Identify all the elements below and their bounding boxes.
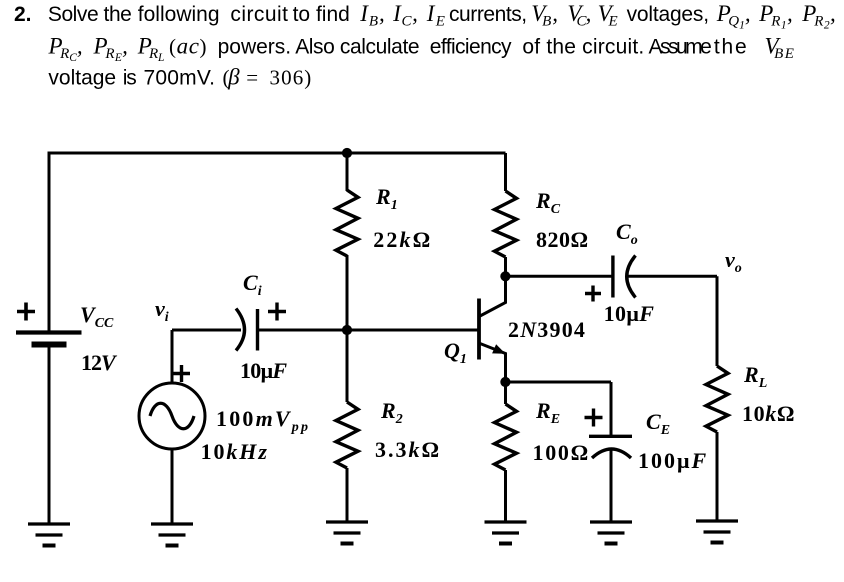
svg-text:PRL: PRL — [137, 34, 165, 65]
label Q1 — [444, 338, 467, 367]
svg-text:PRE,: PRE, — [93, 34, 129, 65]
svg-text:IE: IE — [426, 1, 446, 30]
svg-text:IB,: IB, — [359, 1, 386, 30]
label 100mVpp — [216, 406, 310, 435]
svg-text:(ac): (ac) — [169, 34, 207, 59]
ground RL — [696, 521, 738, 543]
svg-text:efficiency: efficiency — [430, 36, 512, 59]
resistor RC — [495, 191, 517, 257]
label vi — [155, 296, 169, 325]
ground R2 — [326, 522, 368, 544]
wire emitter node horizontal — [506, 381, 612, 384]
svg-text:the: the — [714, 36, 749, 59]
svg-text:voltage: voltage — [48, 67, 116, 90]
svg-text:12V: 12V — [81, 350, 118, 375]
node base-divider junction — [342, 148, 352, 158]
label RL — [743, 362, 767, 391]
svg-text:PR2,: PR2, — [801, 1, 836, 32]
svg-text:10kΩ: 10kΩ — [742, 401, 795, 426]
svg-text:of the circuit.: of the circuit. — [522, 36, 644, 59]
svg-text:RE: RE — [535, 398, 560, 427]
svg-text:10μF: 10μF — [604, 301, 655, 326]
svg-text:Q1: Q1 — [444, 338, 467, 367]
wire Ci to base node — [257, 329, 347, 332]
svg-text:700mV.: 700mV. — [144, 67, 216, 90]
svg-text:306): 306) — [270, 66, 313, 90]
svg-text:820Ω: 820Ω — [536, 227, 589, 252]
node base — [342, 325, 352, 335]
svg-text:RC: RC — [535, 188, 561, 217]
svg-text:currents,: currents, — [449, 3, 527, 26]
capacitor Co — [585, 256, 636, 302]
label 3.3kOhm — [375, 437, 441, 462]
svg-text:PQ1,: PQ1, — [716, 1, 751, 32]
svg-text:22kΩ: 22kΩ — [373, 227, 432, 252]
ground RE — [485, 522, 527, 544]
wire RE top — [504, 381, 507, 404]
svg-text:Also calculate: Also calculate — [295, 36, 419, 59]
svg-text:VC,: VC, — [567, 1, 590, 30]
svg-text:VCC: VCC — [80, 302, 114, 331]
label 12V — [81, 350, 118, 375]
wire vo vertical — [716, 276, 719, 366]
problem text line 2 — [48, 34, 796, 65]
capacitor Ci — [236, 303, 286, 351]
label 22kOhm — [373, 227, 432, 252]
capacitor CE — [585, 409, 633, 459]
label 10uF Ci — [240, 358, 287, 383]
ground battery — [28, 524, 70, 546]
svg-text:100mVpp: 100mVpp — [216, 406, 310, 435]
battery Vcc — [16, 303, 82, 345]
svg-text:RL: RL — [743, 362, 767, 391]
resistor R2 — [336, 402, 358, 468]
label 2N3904 — [508, 317, 586, 342]
wire vi horizontal — [172, 329, 241, 332]
wire R1 top — [346, 153, 349, 191]
svg-text:is: is — [123, 67, 137, 90]
svg-text:(β: (β — [223, 65, 241, 90]
label RE — [535, 398, 560, 427]
wire RC top — [504, 153, 507, 191]
wire CE top — [610, 382, 613, 436]
svg-text:Assume: Assume — [649, 36, 712, 59]
svg-text:=: = — [246, 66, 258, 90]
wire Co to vo corner — [627, 275, 717, 278]
resistor RE — [495, 404, 517, 470]
wire RE bottom — [504, 470, 507, 522]
svg-text:VE: VE — [598, 1, 619, 30]
svg-text:PRC,: PRC, — [48, 34, 83, 65]
label 10kOhm — [742, 401, 795, 426]
label 100Ohm — [533, 440, 590, 465]
label Co — [616, 219, 638, 248]
svg-text:3.3kΩ: 3.3kΩ — [375, 437, 441, 462]
wire battery bottom — [48, 346, 51, 524]
ground CE — [590, 522, 632, 544]
svg-text:R1: R1 — [375, 184, 398, 213]
svg-text:Co: Co — [616, 219, 638, 248]
label 10uF Co — [604, 301, 655, 326]
label CE — [646, 409, 670, 438]
svg-text:10kHz: 10kHz — [201, 439, 269, 464]
svg-text:VB,: VB, — [531, 1, 559, 30]
wire top rail — [49, 152, 506, 155]
svg-text:R2: R2 — [380, 398, 403, 427]
wire RC bottom to collector node — [504, 257, 507, 277]
transistor Q1 2N3904 — [479, 276, 506, 382]
wire AC source bottom — [171, 449, 174, 524]
svg-text:following: following — [138, 3, 220, 26]
svg-text:2N3904: 2N3904 — [508, 317, 586, 342]
resistor R1 — [336, 190, 358, 256]
label 100uF — [638, 448, 708, 473]
node collector — [500, 271, 510, 281]
svg-text:vo: vo — [725, 247, 742, 276]
wire battery top — [48, 152, 51, 332]
svg-text:Solve the: Solve the — [48, 3, 132, 26]
wire vi vertical — [171, 330, 174, 384]
problem text line 1 — [14, 1, 836, 32]
ground AC source — [151, 524, 193, 546]
svg-text:VBE: VBE — [765, 34, 796, 63]
label R2 — [380, 398, 403, 427]
svg-text:circuit: circuit — [230, 3, 288, 26]
label Vcc — [80, 302, 114, 331]
wire RL bottom — [716, 432, 719, 521]
svg-text:100μF: 100μF — [638, 448, 708, 473]
label 10kHz — [201, 439, 269, 464]
source AC vi — [139, 365, 205, 449]
label vo — [725, 247, 742, 276]
label Ci — [243, 270, 262, 299]
wire CE bottom — [610, 450, 613, 522]
svg-text:2.: 2. — [14, 3, 32, 26]
svg-text:100Ω: 100Ω — [533, 440, 590, 465]
svg-text:Ci: Ci — [243, 270, 262, 299]
svg-text:CE: CE — [646, 409, 670, 438]
svg-text:powers.: powers. — [218, 36, 292, 59]
wire R2 top — [346, 330, 349, 402]
wire collector node to Co — [506, 275, 613, 278]
wire R2 bottom — [346, 468, 349, 522]
svg-text:10μF: 10μF — [240, 358, 287, 383]
label 820Ohm — [536, 227, 589, 252]
svg-text:to find: to find — [293, 3, 350, 26]
svg-text:PR1,: PR1, — [758, 1, 793, 32]
node emitter — [500, 377, 510, 387]
svg-text:vi: vi — [155, 296, 169, 325]
label R1 — [375, 184, 398, 213]
wire base — [347, 329, 478, 332]
label RC — [535, 188, 561, 217]
wire R1 bottom to base node — [346, 255, 349, 330]
resistor RL — [706, 366, 728, 432]
svg-text:IC,: IC, — [392, 1, 419, 30]
problem text line 3 — [48, 65, 312, 90]
svg-text:voltages,: voltages, — [627, 3, 709, 26]
